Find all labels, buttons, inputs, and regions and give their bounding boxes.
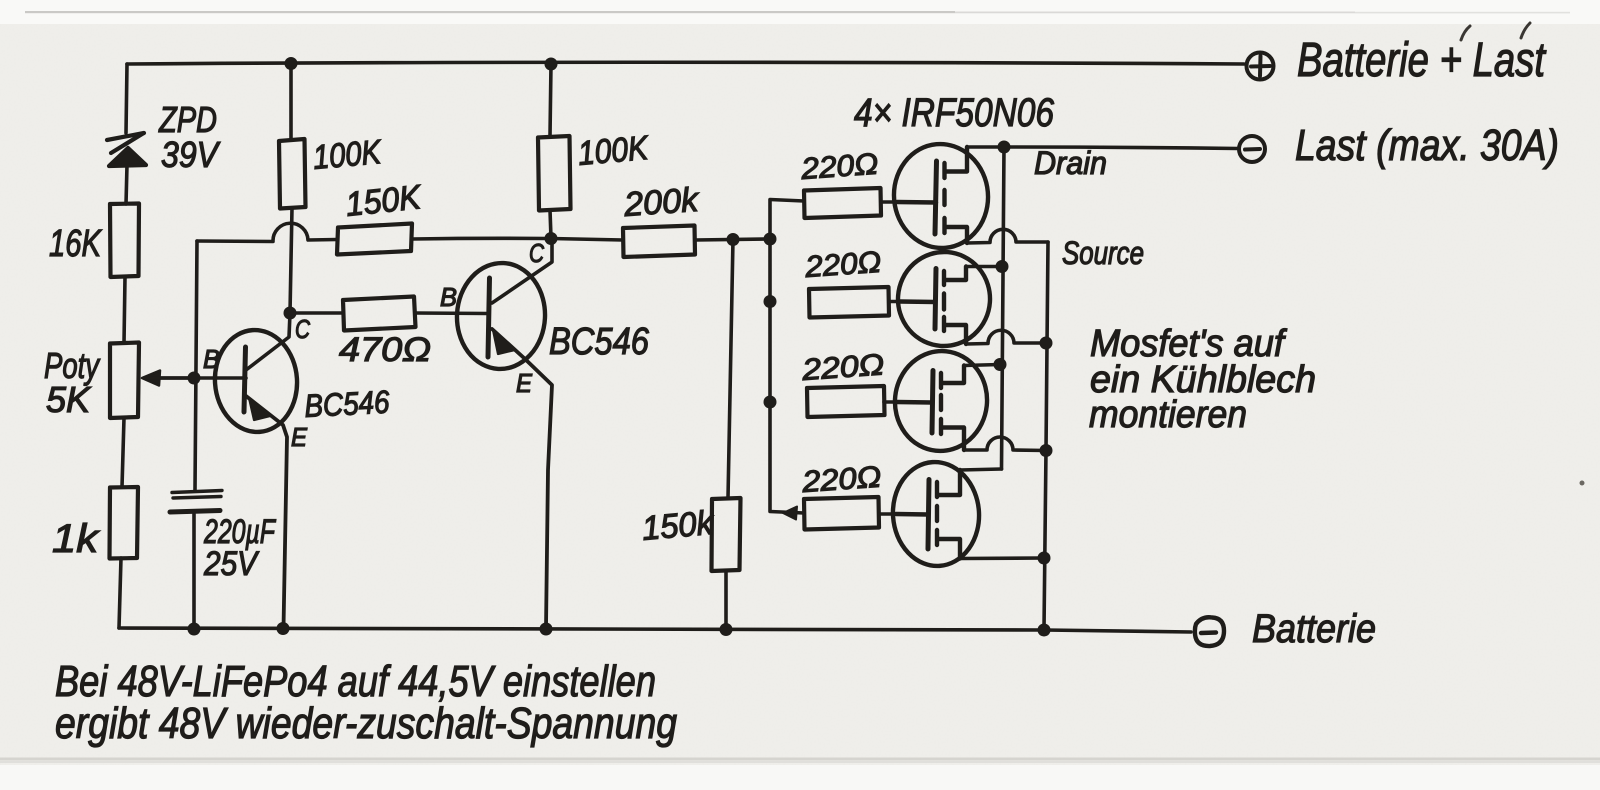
- node bottom rail Q1 emitter: [277, 622, 290, 635]
- wire top rail Batterie+: [127, 62, 1244, 64]
- svg-text:C: C: [529, 238, 544, 268]
- svg-text:220Ω: 220Ω: [799, 148, 879, 186]
- transistor Q2 bar: [488, 278, 490, 357]
- node base row / cap branch: [188, 372, 201, 385]
- node top rail / 100K no.1: [285, 57, 298, 70]
- resistor 220R no.1: [804, 188, 881, 218]
- scan streak top: [25, 11, 1570, 13]
- terminal minus Last: [1239, 136, 1265, 162]
- transistor Q1 BC546 circle: [212, 327, 301, 434]
- resistor 100K no.1 with leads: [289, 64, 293, 140]
- resistor 220R no.2: [809, 287, 889, 318]
- resistor 150K: [337, 224, 412, 255]
- svg-text:220Ω: 220Ω: [803, 246, 882, 284]
- capacitor 220uF 25V plates: [170, 491, 222, 513]
- node drain bus M3: [994, 358, 1007, 371]
- wire M4 drain link: [960, 469, 1002, 470]
- svg-text:150k: 150k: [640, 504, 716, 548]
- svg-text:150K: 150K: [344, 178, 424, 224]
- svg-text:E: E: [291, 422, 308, 452]
- svg-text:1k: 1k: [52, 517, 100, 561]
- svg-text:montieren: montieren: [1089, 394, 1247, 436]
- svg-text:BC546: BC546: [549, 321, 650, 363]
- wire 200k row: [551, 239, 623, 241]
- resistor 100K no.2 with leads: [550, 64, 551, 136]
- wire poty-junction branch down to capacitor: [195, 241, 197, 490]
- svg-text:Batterie: Batterie: [1252, 607, 1376, 651]
- transistor Q2 emitter with arrow: [492, 329, 552, 628]
- svg-text:100K: 100K: [311, 133, 383, 177]
- node bottom rail cap: [188, 623, 201, 636]
- mosfet M2 IRF50N06: [895, 249, 993, 349]
- wire gate bus: [770, 200, 804, 240]
- svg-text:200k: 200k: [622, 181, 701, 224]
- wire M2 drain link: [966, 265, 1002, 269]
- stray pen ticks top right: [1461, 23, 1530, 40]
- svg-text:220Ω: 220Ω: [800, 348, 885, 387]
- node bottom rail source bus: [1038, 624, 1051, 637]
- svg-text:39V: 39V: [161, 134, 221, 175]
- scan streak bottom: [0, 758, 1600, 764]
- node bottom rail 150k: [720, 623, 733, 636]
- resistor 200k: [623, 226, 695, 258]
- zener diode ZPD 39V: [107, 133, 146, 166]
- wire Last output: [1004, 147, 1238, 149]
- transistor Q1 collector: [246, 313, 290, 370]
- node source bus M3: [1040, 444, 1053, 457]
- mosfet M3 IRF50N06: [890, 346, 992, 455]
- svg-text:4× IRF50N06: 4× IRF50N06: [854, 91, 1055, 135]
- svg-text:B: B: [440, 282, 457, 312]
- wire drain bus: [967, 145, 1004, 149]
- wire M2 source run with hop: [966, 330, 1046, 344]
- stray speck right middle: [1580, 481, 1585, 486]
- node source bus M2: [1040, 337, 1053, 350]
- wire M3 drain link: [964, 365, 1000, 366]
- svg-text:25V: 25V: [203, 545, 260, 583]
- resistor 220R no.4: [804, 497, 879, 530]
- svg-text:ergibt 48V wieder-zuschalt-Spa: ergibt 48V wieder-zuschalt-Spannung: [55, 699, 677, 748]
- svg-text:Batterie + Last: Batterie + Last: [1297, 34, 1546, 87]
- node Q1 collector / 470R: [284, 307, 297, 320]
- wire M1 source run with hop over drain bus: [967, 229, 1048, 243]
- node bottom rail Q2 emitter: [540, 623, 553, 636]
- svg-text:100K: 100K: [576, 129, 650, 173]
- terminal minus Batterie: [1195, 617, 1224, 646]
- wire 150K row with hop over 100K lead: [197, 223, 337, 241]
- terminal plus Batterie+Last: [1247, 53, 1274, 80]
- node gate bus R2: [764, 295, 777, 308]
- wire bottom rail: [119, 628, 1191, 632]
- wire source bus: [1044, 242, 1048, 629]
- node 150k branch: [727, 233, 740, 246]
- mosfet M4 IRF50N06: [889, 459, 982, 569]
- resistor 1K: [110, 487, 139, 559]
- svg-text:16K: 16K: [49, 223, 102, 265]
- resistor 220R no.3: [807, 386, 885, 417]
- wire Q1 base row: [144, 376, 246, 380]
- wire M4 source run: [960, 556, 1044, 560]
- svg-text:5K: 5K: [46, 379, 92, 420]
- wire M3 source run with hop: [964, 437, 1046, 451]
- mosfet M1 IRF50N06: [890, 140, 993, 252]
- svg-text:E: E: [516, 368, 533, 398]
- resistor 150k bottom with leads: [728, 239, 733, 498]
- svg-text:B: B: [203, 344, 220, 374]
- transistor Q2 BC546 circle: [454, 261, 547, 371]
- wire left rail (zener/16K/poty/1K chain): [126, 64, 127, 133]
- resistor 470R with leads: [290, 311, 343, 315]
- node top rail / 100K no.2: [545, 58, 558, 71]
- svg-text:Last (max. 30A): Last (max. 30A): [1295, 121, 1559, 170]
- svg-text:470Ω: 470Ω: [339, 331, 431, 369]
- node gate bus R3: [764, 396, 777, 409]
- node gate bus top: [764, 233, 777, 246]
- resistor 16K: [110, 204, 139, 278]
- svg-text:C: C: [295, 314, 310, 344]
- transistor Q2 collector: [492, 241, 552, 303]
- node source bus M4: [1038, 552, 1051, 565]
- svg-text:Source: Source: [1062, 235, 1144, 271]
- node 150K/200k/Q2 collector: [545, 232, 558, 245]
- gate bus arrow at R4: [783, 507, 797, 520]
- node drain bus M2: [996, 260, 1009, 273]
- potentiometer Poty 5K: [110, 343, 139, 419]
- svg-text:Drain: Drain: [1034, 145, 1107, 181]
- poty wiper arrow: [158, 376, 196, 380]
- svg-text:BC546: BC546: [303, 384, 390, 424]
- node drain bus top: [998, 141, 1011, 154]
- transistor Q1 emitter with arrow: [246, 396, 287, 628]
- transistor Q1 bar: [244, 347, 246, 412]
- svg-text:220Ω: 220Ω: [800, 461, 882, 500]
